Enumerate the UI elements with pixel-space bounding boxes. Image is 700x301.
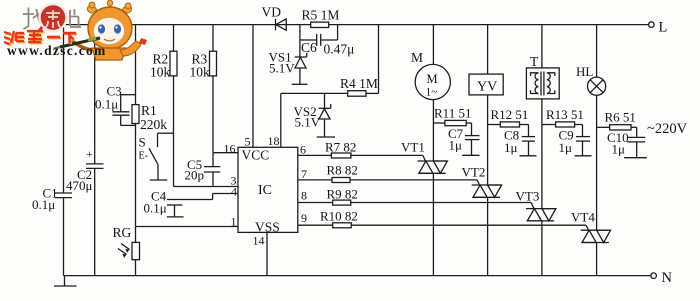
svg-text:R8 82: R8 82 [327, 163, 358, 178]
wire pin3 [174, 186, 239, 188]
svg-text:RG: RG [113, 225, 132, 240]
svg-text:T: T [530, 54, 539, 69]
wire YV branch [487, 25, 489, 75]
svg-text:1μ: 1μ [504, 140, 518, 155]
logo magnifier circle [40, 4, 67, 31]
svg-text:0.47μ: 0.47μ [324, 42, 355, 57]
wire pin6 gate row [298, 154, 332, 156]
svg-text:C6: C6 [301, 40, 317, 55]
wire C1 branch vertical [63, 25, 65, 193]
wire C2 branch vertical [94, 25, 96, 164]
wire switch tap [158, 132, 174, 134]
IC U1 box [238, 147, 298, 232]
ground [462, 154, 479, 156]
svg-text:1μ: 1μ [612, 142, 626, 157]
capacitor C8 [522, 136, 535, 138]
wire pin5 vertical [252, 25, 254, 148]
ground [292, 83, 308, 85]
resistor R12 [500, 122, 519, 127]
svg-text:1μ: 1μ [449, 138, 463, 153]
wire R3 branch vertical [212, 25, 214, 52]
svg-text:1: 1 [231, 215, 237, 229]
logo glyph zhao [23, 8, 43, 30]
ground [317, 136, 335, 138]
wire C3 loop [121, 94, 136, 96]
svg-text:M: M [411, 50, 423, 65]
wire pin18 vertical [280, 93, 282, 147]
wire R1 branch vertical [135, 25, 137, 105]
svg-text:L: L [659, 20, 668, 36]
ground [624, 157, 647, 159]
svg-text:220k: 220k [140, 117, 167, 132]
triac VT1 [418, 161, 448, 276]
svg-text:VT1: VT1 [401, 140, 425, 155]
logo glyph pian [70, 9, 81, 27]
wire pin7 gate row [298, 179, 332, 181]
switch S [157, 133, 159, 147]
capacitor C10 [627, 136, 645, 138]
solenoid YV box [469, 74, 503, 95]
svg-text:10k: 10k [190, 65, 211, 80]
svg-text:VCC: VCC [242, 148, 270, 163]
wire R11 snubber [433, 122, 445, 124]
svg-text:R9 82: R9 82 [327, 187, 358, 202]
svg-text:VT2: VT2 [462, 165, 486, 180]
svg-text:1~: 1~ [426, 87, 438, 99]
resistor R1 [132, 105, 139, 124]
svg-text:R4 1M: R4 1M [340, 76, 378, 91]
lamp HL [588, 77, 606, 95]
svg-text:R10 82: R10 82 [320, 209, 358, 224]
wire pin9 gate row [298, 224, 333, 226]
watermark logo dzsc [4, 0, 147, 60]
capacitor C7 [465, 135, 480, 137]
transformer T [526, 68, 559, 99]
resistor R11 [445, 120, 466, 125]
wire pin4 [213, 193, 238, 195]
capacitor C5 [204, 166, 220, 168]
svg-text:R6 51: R6 51 [605, 110, 636, 125]
triac VT2 [472, 185, 502, 276]
diode VD [275, 19, 277, 30]
wire top rail [64, 24, 649, 26]
svg-text:M: M [427, 72, 438, 86]
wire pin14 vertical [266, 232, 268, 275]
wire bottom rail [64, 275, 651, 277]
resistor R13 [556, 122, 575, 127]
svg-text:7: 7 [301, 167, 307, 181]
capacitor C9 [576, 136, 590, 138]
mascot pen [60, 38, 100, 47]
svg-text:470μ: 470μ [66, 178, 93, 193]
resistor R8 [332, 178, 350, 183]
zener VS2 [324, 93, 326, 108]
svg-text:10k: 10k [150, 65, 171, 80]
svg-text:VT3: VT3 [516, 189, 540, 204]
terminal N [651, 273, 657, 279]
wire pin8 gate row [298, 202, 333, 204]
svg-text:6: 6 [300, 143, 306, 157]
capacitor C1 [55, 192, 72, 194]
motor M [415, 64, 450, 99]
svg-text:S: S [139, 135, 146, 150]
svg-text:16: 16 [224, 142, 236, 156]
triac VT3 [526, 209, 556, 276]
capacitor C3 [112, 111, 129, 113]
mascot [54, 0, 147, 60]
resistor R7 [331, 153, 351, 158]
resistor R6 [610, 125, 631, 130]
resistor R2 [170, 51, 177, 76]
wire pin1 [136, 226, 239, 228]
resistor R4 [348, 91, 366, 97]
svg-text:E-: E- [139, 151, 148, 162]
ground [520, 155, 537, 157]
svg-text:0.1μ: 0.1μ [95, 97, 118, 112]
svg-text:R1: R1 [141, 103, 157, 118]
svg-text:N: N [662, 270, 673, 286]
wire R6 snubber [597, 126, 610, 128]
svg-text:R7 82: R7 82 [325, 140, 356, 155]
svg-text:R11 51: R11 51 [434, 106, 471, 121]
svg-text:+: + [86, 147, 93, 161]
svg-text:www.dzsc.com: www.dzsc.com [7, 43, 107, 58]
svg-text:VSS: VSS [255, 220, 280, 235]
wire R12 snubber [488, 124, 501, 126]
ground [64, 276, 66, 286]
resistor R3 [210, 51, 217, 76]
svg-text:HL: HL [576, 64, 593, 79]
terminal L [649, 22, 655, 28]
svg-text:VD: VD [262, 5, 282, 20]
capacitor C4 [167, 204, 183, 206]
resistor R10 [333, 223, 352, 228]
svg-text:VT4: VT4 [571, 210, 595, 225]
wire R13 snubber [542, 124, 556, 126]
wire T branch [541, 25, 543, 68]
zener VS1 [295, 56, 307, 58]
svg-text:0.1μ: 0.1μ [144, 201, 167, 216]
svg-text:YV: YV [477, 80, 497, 95]
svg-text:5.1V: 5.1V [269, 61, 295, 76]
triac VT4 [581, 230, 611, 275]
svg-text:~220V: ~220V [647, 121, 688, 137]
ground [575, 155, 592, 157]
capacitor C2 [86, 163, 104, 165]
wire R4 row [281, 92, 348, 94]
wire HL branch [596, 25, 598, 78]
svg-text:18: 18 [268, 134, 280, 148]
svg-text:1μ: 1μ [559, 140, 573, 155]
resistor R9 [333, 200, 351, 205]
svg-text:20p: 20p [185, 168, 205, 183]
svg-text:5: 5 [245, 135, 251, 149]
svg-text:R5 1M: R5 1M [302, 8, 340, 23]
capacitor C6 [316, 34, 318, 46]
resistor R5 [311, 22, 329, 27]
svg-text:9: 9 [301, 211, 307, 225]
svg-text:IC: IC [258, 183, 272, 198]
wire C6 loop [299, 25, 301, 57]
logo text weikuyixia [5, 32, 77, 45]
wire motor branch [432, 25, 434, 65]
svg-text:0.1μ: 0.1μ [32, 197, 55, 212]
svg-text:14: 14 [253, 234, 265, 248]
wire pin16 [213, 152, 238, 154]
svg-text:5.1V: 5.1V [295, 115, 321, 130]
svg-text:8: 8 [301, 189, 307, 203]
svg-text:R12 51: R12 51 [491, 107, 529, 122]
svg-text:4: 4 [231, 185, 237, 199]
svg-text:R13 51: R13 51 [546, 107, 584, 122]
photoresistor RG [132, 242, 140, 259]
wire R2 branch vertical [173, 25, 175, 52]
wire C5 stubs [212, 153, 214, 167]
